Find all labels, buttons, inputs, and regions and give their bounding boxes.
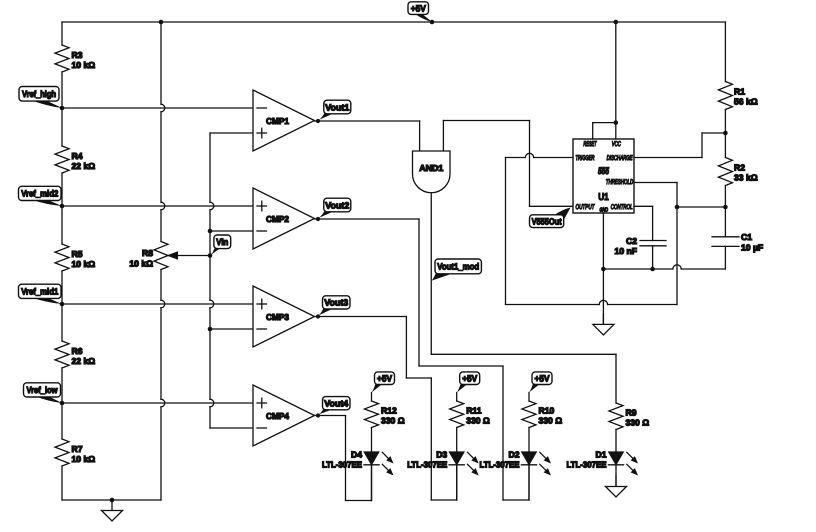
wire CMP3 minus stub [210,328,253,330]
op-amp CMP2 [253,188,315,249]
capacitor C1 [712,232,763,269]
wire Vout4 [315,416,372,501]
node Vout3 flag [319,296,351,316]
wire Vout1_mod [431,193,616,403]
svg-text:10 kΩ: 10 kΩ [129,258,153,268]
ground 555 [593,314,614,335]
resistor R10 [522,401,562,428]
svg-text:22 kΩ: 22 kΩ [72,161,96,171]
svg-text:Vin: Vin [216,237,228,247]
wire R9 to D1 [615,430,617,453]
wire control [634,206,653,240]
wire +5V top rail [62,21,725,23]
op-amp CMP3 [253,286,315,347]
wire R12 to D4 [371,428,373,453]
junction CMP4 out [316,413,320,417]
led D1 [567,449,639,475]
svg-text:R9: R9 [626,408,637,418]
svg-text:R11: R11 [466,406,482,416]
capacitor C2 [615,236,666,269]
svg-text:10 kΩ: 10 kΩ [72,60,96,70]
node Vout2 flag [319,198,351,218]
svg-text:C1: C1 [741,232,752,242]
svg-text:Vref_mid2: Vref_mid2 [21,189,58,199]
svg-text:+5V: +5V [411,3,426,13]
resistor R12 [365,401,405,428]
svg-text:Vout4: Vout4 [324,399,348,409]
svg-text:330 Ω: 330 Ω [539,416,563,426]
junction threshold node [675,205,680,210]
node Vout1_mod flag [431,259,481,281]
svg-text:TRIGGER: TRIGGER [576,155,595,162]
wire Vout1 [315,120,420,122]
wire 555 gnd [602,213,604,324]
svg-text:Vout1_mod: Vout1_mod [437,262,479,272]
wire AND1 input B [443,121,529,152]
led D4 [322,449,394,475]
junction 555 gnd [601,267,606,272]
node +5V flag R11 [457,372,480,393]
wire VCC RESET [593,22,616,139]
svg-text:D2: D2 [509,449,520,459]
resistor R2 [718,158,757,186]
svg-text:R8: R8 [142,248,153,258]
node Vout4 flag [319,397,351,415]
svg-text:+5V: +5V [377,374,392,384]
junction R1 R2 [723,131,728,136]
wire threshold to R2C1 [677,206,725,208]
svg-text:LTL-307EE: LTL-307EE [567,460,607,470]
junction +5V tap [430,20,435,25]
op-amp CMP4 [253,385,315,446]
svg-text:R12: R12 [381,406,397,416]
svg-text:DISCHARGE: DISCHARGE [607,155,633,162]
ground left [102,500,123,521]
svg-text:LTL-307EE: LTL-307EE [480,460,520,470]
node +5V flag [408,2,432,22]
resistor R4 [55,146,95,173]
svg-text:Vout2: Vout2 [325,200,349,210]
wire R1-R2 [724,110,726,158]
junction VCC [614,120,619,125]
node +5V flag R10 [529,372,552,393]
svg-text:R2: R2 [734,163,745,173]
junction R2 C1 [723,205,728,210]
led D2 [480,449,552,475]
svg-text:330 Ω: 330 Ω [466,416,490,426]
node V555Out flag [530,208,571,228]
resistor R3 [55,45,95,72]
wire Vref_mid1 [62,303,253,305]
wire D4 cathode [371,465,373,501]
node Vout1 flag [319,100,351,120]
svg-text:Vref_mid1: Vref_mid1 [21,287,58,297]
resistor R1 [718,82,757,110]
svg-text:OUTPUT: OUTPUT [576,204,596,211]
svg-text:CMP2: CMP2 [266,214,289,224]
svg-text:CONTROL: CONTROL [611,204,633,211]
wire R12 top stub [371,393,373,402]
wire CMP2 minus stub [210,230,253,232]
svg-text:D1: D1 [596,449,607,459]
wire Vin rail [210,133,253,428]
junction C2 gnd [650,267,655,272]
node Vref_low flag [24,383,63,403]
wire trigger [506,153,678,304]
ground D1 [606,476,627,497]
ic U1 555 [573,139,634,214]
resistor R11 [450,401,490,428]
potentiometer R8 [129,242,210,270]
svg-text:10 kΩ: 10 kΩ [72,454,96,464]
svg-text:Vout1: Vout1 [325,102,349,112]
svg-text:R1: R1 [734,87,745,97]
resistor R5 [55,244,95,271]
svg-text:VCC: VCC [612,141,621,148]
svg-text:LTL-307EE: LTL-307EE [322,460,362,470]
svg-text:U1: U1 [598,192,609,203]
svg-text:R6: R6 [72,346,83,356]
svg-text:CMP4: CMP4 [266,411,289,421]
junction Vref_high [60,106,65,111]
wire Vref_high [62,107,253,109]
wire R10 top stub [528,393,530,402]
svg-text:330 Ω: 330 Ω [626,418,650,428]
node +5V flag R12 [372,372,395,393]
svg-text:22 kΩ: 22 kΩ [72,356,96,366]
wire CMP4 minus stub [210,427,253,429]
svg-text:Vref_low: Vref_low [27,385,59,395]
node Vref_mid1 flag [19,284,63,304]
svg-text:R3: R3 [72,50,83,60]
svg-text:33 kΩ: 33 kΩ [734,173,758,183]
led D3 [407,449,479,475]
wire Vout2 [315,219,530,500]
svg-text:+5V: +5V [535,374,550,384]
svg-text:10 nF: 10 nF [615,246,637,256]
and-gate AND1 [413,151,451,193]
wire R11 top stub [456,393,458,402]
svg-text:56 kΩ: 56 kΩ [734,97,758,107]
svg-text:555: 555 [598,166,609,177]
wire D2 cathode [528,465,530,500]
wire 555 output link [530,121,574,207]
wire gnd bus [603,265,725,269]
resistor R6 [55,341,95,368]
junction Vref_low [60,401,65,406]
svg-text:R10: R10 [539,406,555,416]
junction Vref_mid2 [60,204,65,209]
junction ground tap [110,498,115,503]
svg-text:D4: D4 [351,449,362,459]
wire D3 cathode [456,465,458,500]
wire Vref_mid2 [62,205,253,207]
node Vref_mid2 flag [19,186,63,206]
svg-text:R4: R4 [72,151,83,161]
wire R10 to D2 [528,428,530,453]
resistor R9 [609,403,649,430]
junction R8 rail top [159,20,164,25]
svg-text:Vout3: Vout3 [324,298,348,308]
wire Vref_low [62,402,253,404]
svg-text:10 µF: 10 µF [741,243,763,253]
wire left rail segments [61,22,63,500]
wire right rail top [724,22,726,82]
svg-text:CMP1: CMP1 [266,116,289,126]
svg-text:R5: R5 [72,249,83,259]
wire threshold [634,183,677,305]
svg-text:10 kΩ: 10 kΩ [72,259,96,269]
svg-text:C2: C2 [626,236,637,246]
svg-text:R7: R7 [72,444,83,454]
svg-text:D3: D3 [436,449,447,459]
wire bottom left [62,499,161,501]
svg-text:+5V: +5V [462,374,477,384]
wire R11 to D3 [456,428,458,453]
svg-text:V555Out: V555Out [532,217,562,227]
svg-text:AND1: AND1 [419,163,443,173]
node Vref_high flag [19,87,62,109]
wire R8 rail [161,22,165,500]
wire Vout3 [315,317,457,501]
svg-text:LTL-307EE: LTL-307EE [407,460,447,470]
junction CMP1 out [316,119,320,123]
junction Vin wiper [208,253,213,258]
svg-text:330 Ω: 330 Ω [381,416,405,426]
resistor R7 [55,439,95,466]
junction CMP2 out [316,217,320,221]
svg-text:CMP3: CMP3 [266,312,289,322]
wire D1 cathode [615,465,617,487]
junction CMP3 minus [208,327,213,332]
wire AND1 input A [419,121,421,151]
svg-text:THRESHOLD: THRESHOLD [606,179,633,186]
wire discharge [634,133,725,158]
junction Vref_mid1 [60,302,65,307]
junction CMP3 out [316,314,320,318]
wire R2-C1 [724,186,726,237]
op-amp CMP1 [253,90,315,151]
junction VCC rail [614,20,619,25]
svg-text:Vref_high: Vref_high [22,89,56,99]
junction CMP2 minus [208,229,213,234]
node Vin flag [210,235,231,256]
svg-text:RESET: RESET [583,141,597,148]
